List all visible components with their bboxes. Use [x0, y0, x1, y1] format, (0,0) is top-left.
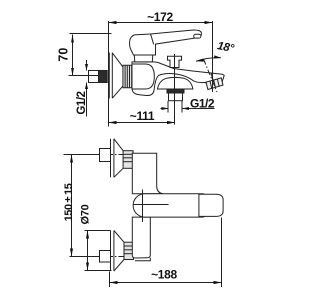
- svg-text:G1/2: G1/2: [76, 91, 88, 114]
- svg-text:70: 70: [56, 48, 70, 62]
- svg-text:150 ± 15: 150 ± 15: [63, 183, 75, 221]
- svg-text:G1/2: G1/2: [190, 97, 215, 111]
- svg-text:~188: ~188: [151, 267, 177, 281]
- svg-text:~111: ~111: [130, 109, 155, 123]
- svg-text:~172: ~172: [147, 10, 173, 24]
- svg-text:Ø70: Ø70: [80, 204, 92, 224]
